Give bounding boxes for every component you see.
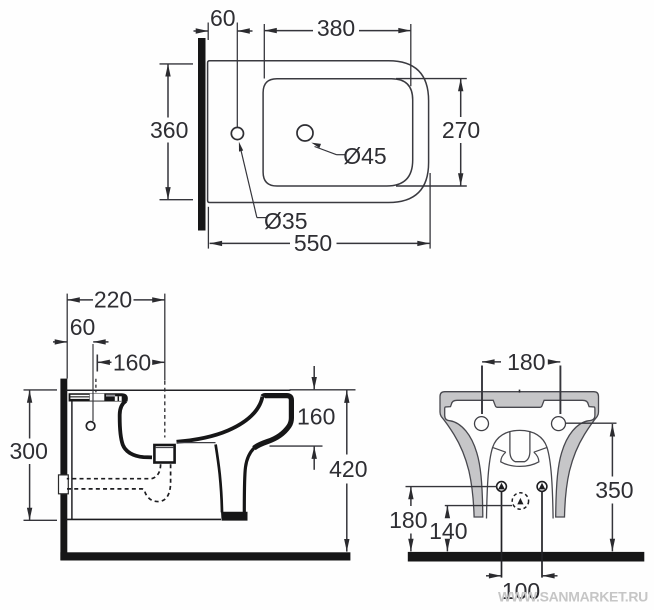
svg-text:Ø35: Ø35 (264, 208, 307, 234)
dimension 100 (486, 575, 501, 577)
leader D45 (315, 147, 337, 155)
deck gray streak (106, 395, 115, 397)
bowl inner bottom line (177, 442, 216, 444)
side view wall bar (60, 379, 67, 560)
deck slit 2 (70, 397, 89, 399)
faucet hole center line (92, 344, 94, 421)
dimension 180 rear top (481, 366, 483, 415)
svg-text:300: 300 (10, 438, 48, 464)
top view inner bowl (263, 79, 413, 186)
svg-text:160: 160 (297, 404, 335, 430)
drain axis dashed (164, 381, 166, 438)
dimension 180 rear left (406, 486, 497, 488)
side view floor bar (60, 552, 350, 560)
bowl bottom extension line (270, 445, 323, 447)
rim top line (66, 389, 291, 391)
front rim and pedestal right edge (254, 396, 292, 449)
svg-text:420: 420 (329, 456, 367, 482)
svg-text:350: 350 (595, 477, 633, 503)
dimension 140 (445, 505, 512, 507)
dimension 270 (396, 78, 467, 80)
top view wall bar (198, 38, 206, 231)
screw symbol right (537, 482, 547, 492)
body bottom line (66, 518, 221, 520)
wall water inlet box (59, 475, 69, 494)
bowl bottom and back curve (177, 397, 263, 442)
dimension 160 right (313, 366, 315, 389)
rear mounting hole right (552, 417, 566, 431)
hole circle D45 (297, 125, 313, 141)
dashed supply pipe upper (67, 464, 161, 478)
rear arch sides and dome (487, 430, 554, 518)
drain hood ledge right (534, 448, 547, 453)
rear top center tick (519, 390, 521, 393)
body back edge (71, 402, 73, 520)
svg-text:180: 180 (389, 507, 427, 533)
top view outer outline (208, 61, 429, 203)
dimension 300 (24, 389, 58, 391)
svg-text:270: 270 (442, 117, 480, 143)
screw drop line left (501, 492, 503, 578)
leader D35 (240, 148, 257, 218)
dimension 550 (207, 207, 209, 249)
pedestal foot (221, 512, 248, 521)
screw drop line right (541, 492, 543, 578)
deck notch (115, 396, 122, 401)
dimension 360 (160, 63, 194, 65)
dashed drain circle (512, 493, 528, 509)
faucet hole circle (86, 422, 95, 431)
dimension 350 (566, 422, 617, 424)
svg-text:WWW.SANMARKET.RU: WWW.SANMARKET.RU (498, 588, 648, 604)
dimension 220 (66, 294, 68, 379)
svg-text:140: 140 (429, 518, 467, 544)
svg-text:60: 60 (70, 314, 96, 340)
rear body (gray) (440, 392, 599, 517)
drain channel (510, 431, 530, 462)
svg-text:220: 220 (94, 287, 132, 313)
rim top extension line (290, 389, 356, 391)
screw symbol left (497, 482, 507, 492)
svg-text:160: 160 (113, 349, 151, 375)
rear mounting hole left (475, 417, 489, 431)
svg-text:60: 60 (210, 5, 236, 31)
svg-text:380: 380 (317, 15, 355, 41)
drain hood skirt (501, 452, 539, 466)
tap deck (black) (69, 393, 128, 401)
drain hood ledge left (493, 448, 506, 453)
hole circle D35 (231, 127, 243, 139)
svg-text:360: 360 (150, 117, 188, 143)
rear floor bar (408, 552, 645, 562)
deck faucet hole (white) (90, 394, 105, 401)
deck slit 1 (70, 395, 89, 397)
dimension 160 side (96, 355, 98, 372)
svg-text:180: 180 (507, 349, 545, 375)
bowl left wall (120, 401, 152, 458)
faucet axis dashed (95, 379, 97, 393)
dimension 420 (346, 390, 348, 454)
dashed trap (67, 464, 171, 501)
svg-text:Ø45: Ø45 (343, 143, 386, 169)
pedestal left edge (216, 444, 222, 512)
drain box (154, 445, 174, 463)
